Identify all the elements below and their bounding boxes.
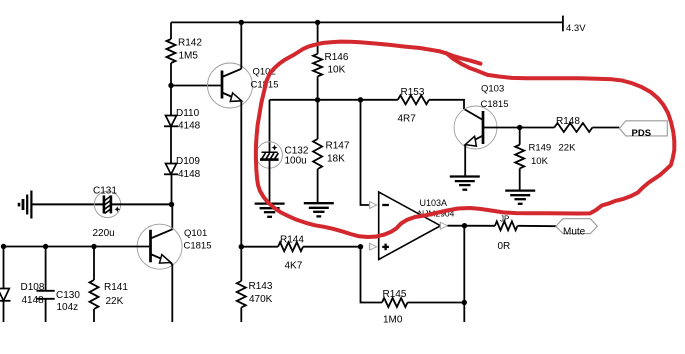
svg-text:Q103: Q103 [481,84,504,95]
wire R153 to Q103 [429,100,464,109]
svg-text:C131: C131 [93,186,117,197]
wire mid node horizontal [270,99,398,101]
wire R144 left [241,246,278,248]
wire R146 top [317,22,319,53]
resistor R146 [313,52,349,76]
capacitor C130 [37,290,81,313]
svg-text:10K: 10K [531,156,549,167]
op-amp U103A [369,192,454,260]
wire C130 bottom stub [45,299,47,322]
node top rail R146 [315,20,320,25]
wire R149 bottom [519,168,521,190]
svg-text:R145: R145 [383,289,407,300]
wire R149 top [519,128,521,145]
node top rail Q102 [239,20,244,25]
diode D108 [0,282,45,306]
node bus D108 [1,244,6,249]
wire top 4.3V rail [171,21,563,23]
node R144 tap [239,244,244,249]
ground C132 [255,204,285,217]
node +input junction [358,244,363,249]
svg-text:0R: 0R [498,241,511,252]
annotation red spur [446,53,481,64]
svg-text:R141: R141 [104,282,128,293]
svg-text:1M5: 1M5 [179,51,199,62]
svg-text:104z: 104z [57,302,79,313]
annotation red loop [256,42,674,237]
svg-text:D110: D110 [176,108,200,119]
ground chassis left [19,191,31,219]
transistor Q102 [208,63,279,108]
svg-text:PDS: PDS [632,128,652,139]
wire feedback right [408,302,465,304]
svg-text:18K: 18K [327,154,345,165]
wire inverting input drop [361,100,370,205]
resistor R145 [382,289,408,326]
svg-text:22K: 22K [559,143,577,154]
transistor Q101 [137,224,211,269]
svg-text:R146: R146 [325,52,349,63]
svg-text:C1815: C1815 [184,241,212,252]
wire R141 top [93,247,95,281]
svg-text:Q101: Q101 [184,228,207,239]
resistor JP 0R [495,215,518,253]
svg-text:R142: R142 [178,38,202,49]
node bus R141 [91,244,96,249]
wire R148 to PDS [592,127,619,129]
wire Q102 base [171,85,221,87]
node R149 junction [517,125,522,130]
wire R147 bottom [317,169,319,203]
node output junction [462,223,467,228]
resistor R143 [237,281,273,308]
wire Q101 collector [171,204,173,229]
wire op-amp output [448,225,495,227]
port PDS [619,121,667,139]
wire R142 to D110 [170,63,172,116]
wire base bus [2,246,150,248]
resistor R144 [278,235,304,272]
svg-text:C130: C130 [56,290,80,301]
diode D110 [164,108,201,132]
wire C131 to node [112,203,172,205]
svg-text:D109: D109 [176,156,200,167]
svg-text:R144: R144 [280,235,304,246]
ground Q103 [450,177,480,190]
wire D108 bottom stub [3,300,5,322]
capacitor C132 [256,142,309,168]
wire Q103 collector lead [464,109,483,120]
node mid R146 [315,97,320,102]
svg-text:R148: R148 [556,116,580,127]
svg-text:22K: 22K [106,296,124,307]
node feedback junction [462,300,467,305]
node Q102 base junction [168,83,173,88]
diode D109 [164,156,201,180]
resistor R141 [90,280,129,309]
node mid inverting branch [358,97,363,102]
svg-text:4148: 4148 [22,295,45,306]
wire 0R to Mute [518,225,556,227]
wire Q101 emitter down [170,262,173,322]
svg-text:220u: 220u [93,228,115,239]
wire D108 top [3,247,5,289]
resistor R142 [167,38,203,64]
node bus C130 [43,244,48,249]
svg-text:Mute: Mute [563,227,586,238]
svg-text:4K7: 4K7 [285,261,303,272]
resistor R153 [398,87,430,125]
wire Q102 emitter down [240,101,242,282]
svg-text:10K: 10K [328,65,346,76]
svg-text:4R7: 4R7 [398,114,417,125]
resistor R148 [554,116,592,154]
svg-text:JP: JP [500,215,509,224]
wire Q103 base to node [483,127,554,129]
wire Q102 collector up [240,22,242,68]
ground R147 [304,203,334,216]
ground R149 [505,191,535,204]
wire D110 to D109 [170,127,172,164]
resistor R149 [515,143,551,169]
svg-text:4.3V: 4.3V [566,23,586,34]
wire R141 bottom stub [93,309,95,322]
wire R146 bottom [317,76,319,99]
wire R144 right [303,246,361,248]
svg-text:R147: R147 [326,141,350,152]
capacitor C131 [93,186,121,240]
wire C132 top [269,100,271,152]
wire R143 bottom stub [240,308,242,323]
port Mute [556,219,597,238]
svg-text:R153: R153 [401,87,425,98]
resistor R147 [313,139,350,169]
svg-text:4148: 4148 [178,121,201,132]
transistor Q103 [454,84,509,150]
svg-text:R143: R143 [249,281,273,292]
svg-text:4148: 4148 [178,169,201,180]
svg-text:R149: R149 [529,143,552,154]
svg-text:1M0: 1M0 [383,315,403,326]
svg-text:U103A: U103A [420,198,448,208]
wire ground to C131 [31,203,103,205]
svg-text:C1815: C1815 [481,99,509,110]
svg-text:100u: 100u [285,156,307,167]
wire C130 top [45,247,47,291]
node C131 junction [169,202,174,207]
wire Q103 emitter down [464,145,466,176]
wire output down stub [463,226,465,322]
wire R147 top [317,100,319,139]
power terminal 4.3V [563,16,586,34]
wire C132 bottom [269,161,271,204]
wire R142 top [170,22,172,39]
wire feedback left [361,247,383,303]
wire D109 to C131 node [171,175,173,204]
svg-text:470K: 470K [249,294,273,305]
